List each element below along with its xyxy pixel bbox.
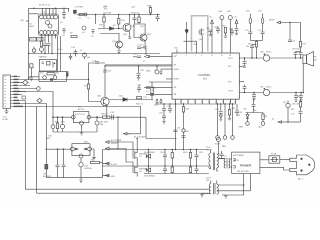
bead L5 inline — [84, 13, 87, 16]
svg-text:C3: C3 — [139, 156, 141, 158]
ac plug contact dots — [300, 158, 310, 172]
wire caps top join — [296, 51, 301, 53]
wire R2 to rail — [41, 52, 43, 54]
bead module FB2 — [243, 85, 247, 93]
flag B+ — [124, 133, 141, 135]
supply bubble VP1 — [220, 16, 224, 20]
svg-text:C64: C64 — [229, 29, 232, 31]
labels supply pair right — [245, 11, 262, 49]
wire bottom y177.6 — [46, 177, 102, 179]
IC U1 inner pads — [46, 21, 53, 29]
svg-text:D50: D50 — [246, 11, 249, 13]
svg-text:VP1: VP1 — [228, 66, 231, 68]
capacitor C35 — [299, 93, 303, 102]
svg-text:IN3: IN3 — [174, 87, 177, 89]
svg-text:C60: C60 — [174, 48, 177, 50]
resistor R7 banded — [66, 71, 68, 77]
resistor R2 — [40, 41, 42, 47]
capacitor C30 pair above wire — [250, 45, 254, 59]
svg-text:D51: D51 — [259, 11, 262, 13]
diode D1 dark in box — [50, 79, 52, 81]
capacitor C51 — [56, 149, 60, 177]
resistor R23 — [299, 99, 301, 112]
svg-text:R42 2.2: R42 2.2 — [136, 104, 144, 106]
IC U3 bottom pin numbers — [174, 102, 236, 104]
wire drop x146 to rail — [145, 117, 147, 138]
capacitor C101 — [163, 166, 167, 174]
svg-text:LA42: LA42 — [29, 25, 35, 28]
mosfet M1 — [133, 139, 137, 163]
svg-text:4700u: 4700u — [266, 52, 271, 54]
wire Q2 base — [134, 24, 142, 38]
boxed label LB1 — [22, 96, 26, 99]
resistor R12 riser — [151, 82, 153, 100]
IC U3 left pin names — [174, 56, 180, 96]
wire power box bottom drops — [217, 174, 251, 196]
ground stub left — [30, 68, 34, 81]
svg-text:VP2: VP2 — [228, 82, 231, 84]
svg-text:R97: R97 — [291, 109, 294, 111]
svg-text:D41: D41 — [227, 11, 230, 13]
transformer T101 small — [219, 158, 230, 168]
svg-text:I/P: I/P — [21, 20, 24, 23]
diode D7 — [246, 113, 250, 126]
IC U3 top pin numbers — [176, 55, 231, 57]
transformer T5 box — [71, 144, 92, 158]
svg-text:7: 7 — [195, 55, 196, 57]
svg-text:23: 23 — [229, 102, 231, 104]
speaker SP1 — [303, 52, 314, 67]
svg-text:AC IN: AC IN — [234, 159, 240, 162]
supply bubble VP3 — [217, 138, 221, 142]
ground on loop — [80, 125, 84, 135]
svg-text:L5: L5 — [88, 18, 90, 20]
resistor R24 drop — [56, 117, 58, 132]
labels SMPS primary — [46, 112, 114, 140]
capacitor C49 series — [112, 115, 114, 120]
capacitor C33 — [299, 52, 303, 59]
resistor R21 drop — [228, 104, 231, 120]
wire out rail2 y166 — [103, 165, 209, 167]
resistor R103 — [189, 166, 191, 174]
diode D2 — [123, 98, 127, 102]
resistor R5 — [71, 36, 77, 38]
wire trafo right to ground — [91, 149, 95, 160]
flag aux2 — [103, 174, 110, 177]
resistor R10 on x88.5 — [87, 63, 101, 102]
capacitor C36 — [248, 32, 252, 40]
node I/P input label — [26, 20, 29, 22]
svg-text:8: 8 — [187, 102, 188, 104]
capacitor C6 dark — [74, 10, 77, 14]
diode D8 chain — [79, 158, 83, 183]
svg-text:R110: R110 — [183, 152, 187, 154]
svg-text:C95: C95 — [243, 109, 246, 111]
svg-text:C90: C90 — [159, 113, 162, 115]
svg-text:OUT4: OUT4 — [228, 90, 233, 92]
svg-text:ST-BY: ST-BY — [215, 144, 221, 146]
svg-text:C70: C70 — [245, 30, 248, 32]
svg-text:C110: C110 — [160, 152, 164, 154]
svg-text:K1: K1 — [79, 18, 81, 20]
IC U1 pin pads top — [40, 15, 58, 19]
svg-text:HER105: HER105 — [85, 168, 92, 170]
fuse F1 — [269, 156, 280, 163]
svg-text:L90: L90 — [186, 131, 189, 133]
transistor Q6 pad — [83, 53, 87, 59]
boxed test label TP1 — [30, 38, 37, 42]
svg-text:C63: C63 — [214, 27, 217, 29]
svg-text:C62: C62 — [206, 28, 209, 30]
resistor R11 — [137, 97, 142, 99]
wire pin1 5V — [12, 76, 20, 78]
svg-text:9: 9 — [201, 55, 202, 57]
capacitor C50 dark — [45, 149, 48, 177]
capacitor C102 — [195, 150, 199, 167]
ground below connector — [5, 109, 9, 114]
labels flags — [111, 134, 147, 174]
svg-text:C71: C71 — [258, 30, 261, 32]
IC U1 pin pads bottom — [40, 31, 58, 35]
bead on drop — [182, 129, 185, 132]
supply arrow A2 — [235, 20, 238, 28]
svg-text:C91: C91 — [167, 106, 170, 108]
wire speaker bottom — [270, 64, 304, 93]
diode D100 — [146, 150, 150, 167]
svg-text:13: 13 — [201, 102, 203, 104]
svg-text:18: 18 — [229, 55, 231, 57]
wire pin9 down-run — [12, 98, 42, 189]
transistor Q1 — [123, 24, 131, 32]
resistor R14 — [118, 15, 120, 29]
wire rail y14.5 comps: resistor R13 — [149, 6, 151, 15]
IC U3 left pin wires — [105, 56, 172, 94]
IC U3 top pin stubs — [177, 20, 230, 53]
bead in box — [53, 76, 57, 80]
wire pin6 — [12, 91, 26, 93]
capacitor C13 on collector — [103, 70, 107, 72]
labels above IC top pins — [174, 11, 237, 50]
capacitor C100 — [163, 150, 167, 167]
resistor R16 — [103, 15, 105, 29]
svg-text:F1 4A: F1 4A — [271, 153, 277, 156]
IC U3 bottom pin stubs — [176, 99, 236, 104]
supply pair D5 bubble — [249, 14, 251, 32]
svg-text:C61: C61 — [206, 180, 209, 182]
wire secondary left y149 — [46, 148, 70, 150]
wire U1 top pin stubs — [43, 8, 57, 15]
svg-text:R33 D21: R33 D21 — [131, 13, 140, 15]
wire rail y53.5 — [29, 53, 160, 55]
wire speaker top — [270, 57, 303, 59]
svg-text:C84 C85: C84 C85 — [292, 104, 299, 106]
relay contact K1 inline — [79, 13, 83, 15]
resistor R20 on drop — [182, 107, 184, 113]
svg-text:C94: C94 — [239, 112, 242, 114]
wire y66 to IC — [105, 65, 172, 67]
svg-text:D95: D95 — [237, 115, 240, 117]
svg-text:R61: R61 — [194, 44, 197, 46]
IC U3 main body — [172, 53, 239, 99]
wire rail y138.5 — [146, 138, 177, 140]
wire primary left y117.2 — [53, 116, 72, 118]
svg-text:IC3: IC3 — [203, 78, 207, 81]
flag gate1 — [106, 141, 134, 152]
capacitor C40 below bus — [162, 104, 166, 124]
svg-text:PC1: PC1 — [223, 156, 227, 158]
wire Q1 emitter — [128, 31, 132, 38]
svg-text:R59 2.2: R59 2.2 — [101, 114, 108, 116]
capacitor C4 — [47, 44, 51, 54]
wire out rail3 y173.5 — [144, 173, 209, 175]
boxed test label TP2 — [37, 38, 44, 42]
capacitor C27 — [216, 26, 220, 34]
transformer T4 box — [72, 112, 91, 125]
capacitor C24 — [146, 94, 154, 96]
labels below bus — [159, 96, 300, 148]
wire bottom rail B — [37, 192, 209, 194]
svg-text:16: 16 — [208, 102, 210, 104]
capacitor C37 — [261, 32, 265, 40]
capacitor C5 drop on rail — [62, 8, 66, 18]
svg-text:C73: C73 — [292, 41, 295, 43]
resistor R22 — [261, 113, 265, 126]
svg-text:C80: C80 — [260, 52, 263, 54]
wire y33.5 — [100, 34, 119, 42]
svg-text:ACC: ACC — [259, 126, 264, 129]
capacitor C47 — [299, 112, 303, 123]
wire pin2 long — [12, 79, 88, 81]
wire connector to box — [29, 76, 39, 78]
wire bracket y41.2 — [184, 40, 197, 42]
svg-text:R1 R2 C1 C2: R1 R2 C1 C2 — [39, 4, 50, 6]
wire drop x183.5 — [183, 104, 185, 150]
IC U1 body — [39, 14, 59, 36]
boxed label LB2 — [30, 64, 33, 68]
resistor R19 — [299, 42, 301, 52]
svg-text:B GM: B GM — [3, 119, 8, 121]
svg-text:IN4: IN4 — [174, 94, 177, 96]
wire y112.5 — [246, 112, 264, 114]
capacitor C12 — [95, 62, 99, 64]
svg-text:AC 100-240V: AC 100-240V — [134, 136, 146, 139]
power module PS1 — [232, 152, 260, 173]
wire vertical x57.5 — [57, 36, 59, 72]
svg-text:R91: R91 — [232, 108, 235, 110]
capacitor C45 drop — [235, 104, 239, 116]
wire pin6 to transformer — [12, 92, 53, 118]
svg-text:25: 25 — [234, 102, 236, 104]
wire pin5 bead — [12, 87, 40, 91]
labels circuit2 — [43, 160, 94, 179]
svg-text:L95: L95 — [283, 102, 286, 104]
resistor R26 — [91, 161, 103, 163]
wire y82 to IC — [149, 81, 172, 83]
capacitor C20 — [144, 56, 150, 58]
wire bottom rail A — [25, 188, 209, 190]
connector CN1 pin ticks — [11, 77, 13, 107]
svg-text:D40: D40 — [219, 11, 222, 13]
svg-text:C82 C83: C82 C83 — [292, 49, 299, 51]
svg-text:400V: 400V — [46, 138, 51, 140]
wire primary right y117.2 — [91, 116, 146, 118]
capacitor C32 — [294, 52, 298, 59]
mosfet Q8 — [198, 29, 204, 36]
svg-text:10k: 10k — [246, 46, 249, 48]
wire pin10 down-run — [12, 104, 46, 150]
bead B3 — [286, 101, 290, 123]
flag aux1 — [103, 162, 110, 165]
terminal P1 — [216, 104, 220, 139]
svg-text:Q40: Q40 — [199, 39, 203, 41]
svg-text:C45 R30: C45 R30 — [103, 13, 112, 15]
wire pin4 — [12, 85, 30, 87]
capacitor C52 — [62, 149, 66, 177]
svg-text:C111: C111 — [199, 152, 203, 154]
capacitor C14 drop — [137, 66, 141, 80]
wire Q7 emitter — [106, 105, 108, 117]
svg-text:D101 SB560: D101 SB560 — [144, 176, 155, 178]
wire arrow net — [281, 23, 301, 42]
wire y63 — [89, 62, 106, 64]
resistor R101 — [171, 166, 173, 174]
svg-text:R95: R95 — [253, 110, 256, 112]
flag arrow left — [278, 121, 288, 123]
supply pair D6 bubble — [261, 14, 263, 32]
capacitor C43 on drop — [182, 136, 186, 138]
svg-text:10: 10 — [194, 102, 196, 104]
wire pin3 with bead — [12, 80, 28, 85]
flag gate2 — [106, 147, 134, 166]
supply bubble VP2 — [228, 16, 232, 20]
regulator IC2 box — [39, 59, 56, 71]
wire Q2 collector — [135, 24, 146, 34]
transformer T200 — [209, 181, 218, 195]
transistor Q7 — [101, 97, 109, 105]
bead module FB1 — [243, 58, 247, 67]
svg-text:12: 12 — [211, 55, 213, 57]
wire Q1 collector to rail — [129, 15, 131, 24]
fuse bead F2 — [95, 117, 99, 132]
transistor Q5 pad — [82, 26, 86, 30]
svg-text:400/450V: 400/450V — [43, 176, 52, 178]
svg-text:1 2 3 4: 1 2 3 4 — [41, 12, 46, 14]
wire U1 bottom pin stubs — [42, 35, 56, 54]
wire T101 to power box — [230, 159, 232, 167]
terminal P3 — [231, 104, 235, 139]
flag input arrow — [277, 21, 281, 24]
svg-text:R96: R96 — [264, 116, 267, 118]
svg-text:SW POWER: SW POWER — [233, 155, 244, 157]
capacitor C46 — [252, 99, 256, 113]
capacitor C2 inline circle — [40, 48, 44, 52]
svg-text:C17 1u: C17 1u — [137, 45, 145, 47]
resistor R17 — [224, 28, 227, 38]
svg-text:D60: D60 — [100, 124, 103, 126]
svg-text:SUPPLY: SUPPLY — [111, 143, 119, 145]
connector CN1 body — [3, 75, 11, 109]
svg-text:1TR36: 1TR36 — [206, 150, 212, 152]
capacitor C29 — [235, 29, 239, 35]
bead L4 — [32, 47, 35, 54]
capacitor C104 — [220, 151, 224, 159]
ground pin drop — [159, 69, 163, 75]
mosfet M2 — [133, 163, 137, 177]
resistor R102 — [189, 150, 191, 167]
wire pin11 power-on long — [12, 107, 140, 194]
supply arrow A1 — [211, 20, 214, 24]
wire out rail1 y149.5 — [103, 149, 209, 151]
wire y122 — [288, 121, 301, 123]
capacitor C22 — [133, 56, 141, 58]
svg-text:R58: R58 — [55, 122, 58, 124]
capacitor C42 on drop — [174, 130, 178, 132]
svg-text:5: 5 — [180, 102, 181, 104]
svg-text:4700u: 4700u — [266, 87, 271, 89]
wire Q7 collector — [104, 66, 106, 97]
wire join y38.2 — [250, 39, 262, 41]
capacitor C31 drop — [252, 93, 256, 100]
svg-text:R90: R90 — [186, 109, 189, 111]
ground T200 right — [224, 196, 228, 199]
svg-text:MUTE: MUTE — [269, 20, 275, 22]
wire left vertical x53 — [52, 117, 54, 125]
svg-text:B+ 45V: B+ 45V — [111, 164, 118, 166]
svg-text:REM: REM — [239, 127, 244, 129]
svg-text:+7.5V REG: +7.5V REG — [74, 7, 84, 9]
capacitor C26 — [209, 30, 213, 36]
wire power to fuse — [260, 159, 269, 161]
svg-text:21: 21 — [222, 102, 224, 104]
svg-text:AC17V 10V: AC17V 10V — [75, 113, 85, 116]
capacitor C21 — [137, 47, 146, 55]
svg-text:SW 100-240V: SW 100-240V — [237, 171, 250, 173]
capacitor C18 — [133, 15, 137, 25]
connector pin labels — [14, 76, 24, 107]
capacitor CE1 circle — [263, 53, 269, 61]
svg-text:R16: R16 — [104, 8, 107, 10]
capacitor C10 — [74, 50, 78, 57]
svg-text:R73: R73 — [303, 44, 306, 46]
capacitor C41 — [168, 104, 172, 113]
svg-text:TDA8588J: TDA8588J — [198, 73, 211, 77]
labels top mid cluster — [206, 26, 232, 32]
capacitor C25 — [137, 85, 141, 93]
IC U3 right pin names — [228, 58, 233, 93]
svg-text:19: 19 — [215, 102, 217, 104]
transistor Q3 — [116, 41, 123, 48]
resistor R6 in box — [47, 73, 55, 75]
svg-text:1k: 1k — [152, 90, 154, 92]
wire diode feed y28.5 — [98, 28, 123, 30]
capacitor C103 — [195, 166, 199, 174]
svg-text:C81: C81 — [260, 87, 263, 89]
diode D4 black on x186.7 — [185, 22, 188, 41]
wire IC1 top feed — [29, 13, 39, 15]
capacitor C16 — [160, 100, 163, 105]
capacitor C8 — [63, 28, 66, 34]
capacitor C3 — [43, 44, 47, 54]
transformer T100 — [209, 142, 219, 172]
svg-text:GND: GND — [111, 176, 116, 178]
capacitor C48 dark — [51, 125, 55, 132]
wire pin7 — [12, 94, 22, 96]
capacitor C11 — [69, 54, 72, 61]
svg-text:4: 4 — [186, 55, 187, 57]
connector CN1 pin numbers — [5, 77, 7, 107]
wire fuse to plug — [280, 159, 290, 161]
resistor R100 — [171, 150, 173, 167]
